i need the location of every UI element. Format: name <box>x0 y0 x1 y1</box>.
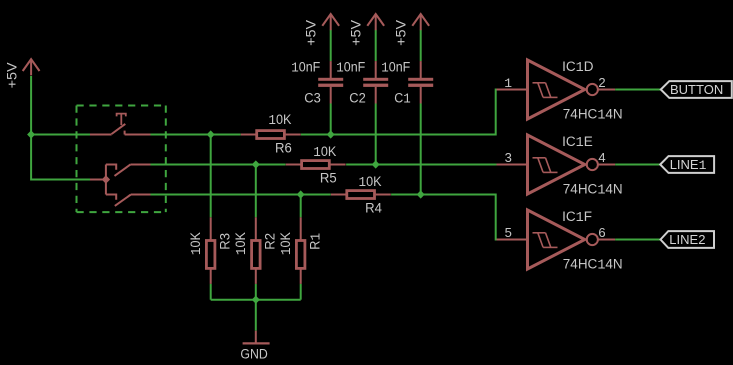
svg-text:74HC14N: 74HC14N <box>563 106 623 123</box>
svg-text:R2: R2 <box>262 233 277 250</box>
svg-text:74HC14N: 74HC14N <box>563 256 623 273</box>
svg-text:BUTTON: BUTTON <box>670 82 723 97</box>
svg-text:10K: 10K <box>188 232 205 255</box>
svg-text:10K: 10K <box>313 144 336 161</box>
svg-text:R6: R6 <box>275 140 292 155</box>
svg-text:R1: R1 <box>307 233 324 250</box>
svg-text:C2: C2 <box>349 90 366 105</box>
svg-text:C1: C1 <box>394 90 411 107</box>
svg-text:LINE1: LINE1 <box>670 157 707 173</box>
svg-text:C3: C3 <box>304 90 321 105</box>
svg-text:74HC14N: 74HC14N <box>563 181 623 198</box>
svg-text:IC1E: IC1E <box>562 134 593 151</box>
svg-text:R3: R3 <box>217 233 232 250</box>
svg-text:+5V: +5V <box>394 20 409 46</box>
svg-text:10K: 10K <box>268 112 291 129</box>
svg-text:5: 5 <box>505 225 512 240</box>
svg-text:+5V: +5V <box>304 20 319 46</box>
svg-text:1: 1 <box>504 76 512 91</box>
svg-text:R4: R4 <box>365 200 382 215</box>
svg-text:IC1F: IC1F <box>562 209 592 226</box>
svg-text:10nF: 10nF <box>291 60 320 77</box>
svg-text:LINE2: LINE2 <box>669 232 705 247</box>
svg-text:6: 6 <box>598 225 605 240</box>
svg-text:10K: 10K <box>359 174 382 191</box>
svg-text:R5: R5 <box>320 170 337 185</box>
svg-text:GND: GND <box>240 347 268 362</box>
svg-text:10nF: 10nF <box>381 60 410 77</box>
svg-text:10K: 10K <box>233 232 250 255</box>
svg-text:IC1D: IC1D <box>562 59 594 76</box>
svg-text:+5V: +5V <box>5 62 20 88</box>
svg-text:3: 3 <box>505 150 512 165</box>
svg-text:4: 4 <box>598 150 605 165</box>
svg-text:+5V: +5V <box>349 20 364 46</box>
svg-text:10nF: 10nF <box>336 60 365 77</box>
svg-text:10K: 10K <box>278 232 295 255</box>
svg-text:2: 2 <box>598 75 605 90</box>
